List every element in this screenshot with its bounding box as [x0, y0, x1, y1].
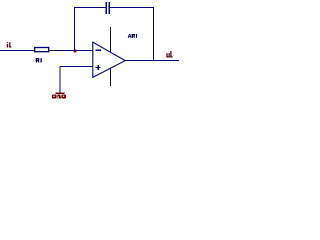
ground GND label: [52, 95, 66, 99]
wire output to right edge: [125, 60, 180, 62]
wire capacitor to right corner: [110, 7, 154, 9]
junction node dot: [73, 49, 76, 52]
wire top left to capacitor: [74, 7, 105, 9]
capacitor C (feedback): [106, 2, 109, 14]
node iL label: [7, 42, 12, 47]
op-amp AR1 designator label: [128, 34, 137, 38]
op-amp bottom power pin: [109, 68, 111, 87]
resistor right pin: [49, 50, 58, 52]
wire feedback left vertical: [74, 8, 76, 51]
wire input from left edge to resistor: [0, 50, 35, 52]
op-amp inverting input minus sign: [96, 49, 101, 51]
wire resistor to op-amp inverting input: [49, 50, 92, 52]
op-amp top power pin: [109, 27, 111, 52]
wire non-inverting input horizontal: [60, 66, 93, 68]
op-amp AR1 triangle: [93, 42, 125, 77]
wire down to ground: [59, 67, 61, 94]
resistor R1: [35, 48, 49, 52]
ground bar: [56, 92, 65, 94]
wire feedback right vertical: [152, 8, 154, 61]
node uL label: [166, 51, 172, 58]
op-amp non-inverting input plus sign: [96, 65, 101, 70]
resistor R1 designator label: [36, 58, 42, 62]
